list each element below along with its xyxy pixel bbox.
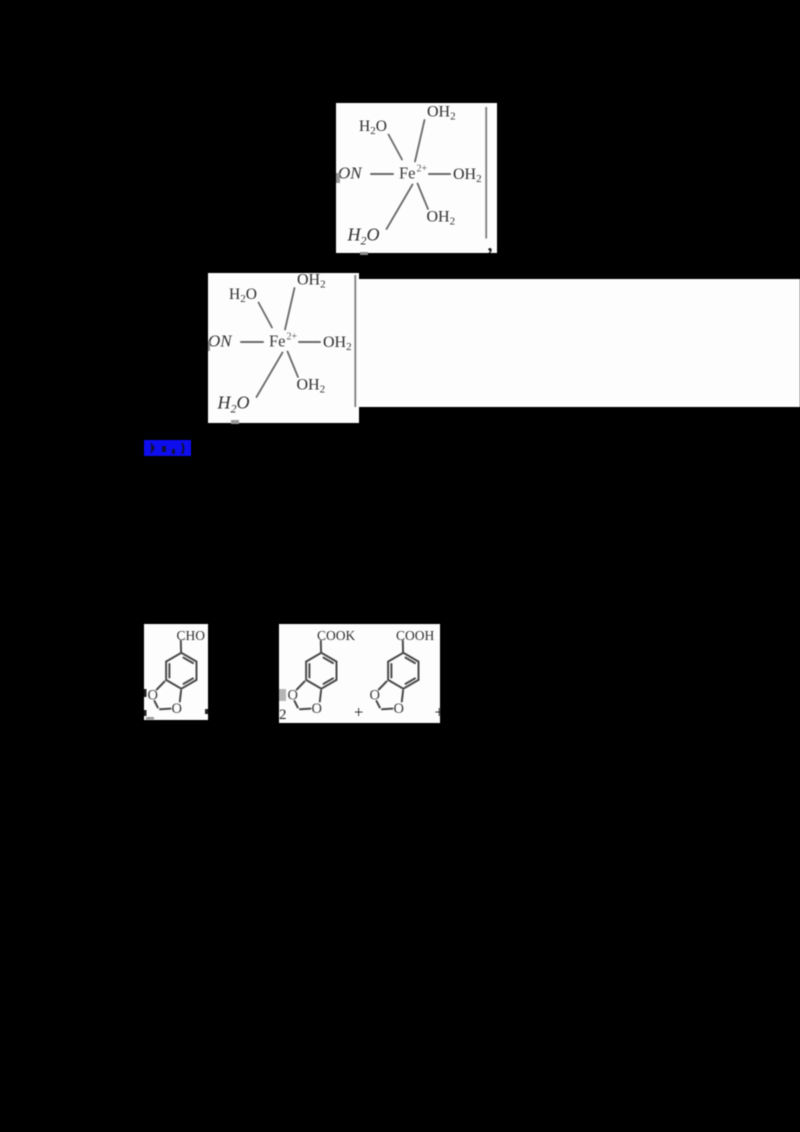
svg-text:+: + (354, 703, 363, 722)
blue link blob (144, 440, 191, 456)
gray smudge under patch 1 (360, 252, 368, 255)
piperonal skeleton (148, 641, 197, 717)
white patch: equation image 2 (second complex) (208, 273, 359, 423)
dark tick bottom-right (205, 709, 208, 714)
dark glyph marks inside blue blob (144, 440, 191, 456)
gray dash bottom (146, 717, 154, 720)
bracket line right (354, 275, 356, 407)
complex [Fe(H2O)5(NO)]2+ instance 1 (336, 103, 497, 253)
svg-text:,: , (488, 234, 493, 253)
potassium salt skeleton (288, 641, 337, 717)
white patch: piperonal image (144, 624, 208, 720)
white patch: potassium piperonylate + piperonylic acid image (279, 624, 440, 723)
dark tick left edge (144, 689, 147, 697)
svg-text:COOH: COOH (396, 628, 435, 643)
piperonylic acid skeleton (370, 641, 419, 717)
white patch: equation image 1 (top) (336, 103, 497, 253)
svg-text:+: + (435, 703, 441, 722)
gray smudge under patch 2 (231, 420, 239, 424)
complex [Fe(H2O)5(NO)]2+ instance 2 (208, 273, 359, 423)
white band right of complex 2 (359, 279, 800, 407)
svg-text:2: 2 (279, 707, 287, 723)
svg-text:COOK: COOK (317, 628, 356, 643)
bracket line right (485, 107, 487, 239)
gray smudge left of O (279, 689, 286, 701)
dark tick bottom-left (144, 710, 147, 716)
